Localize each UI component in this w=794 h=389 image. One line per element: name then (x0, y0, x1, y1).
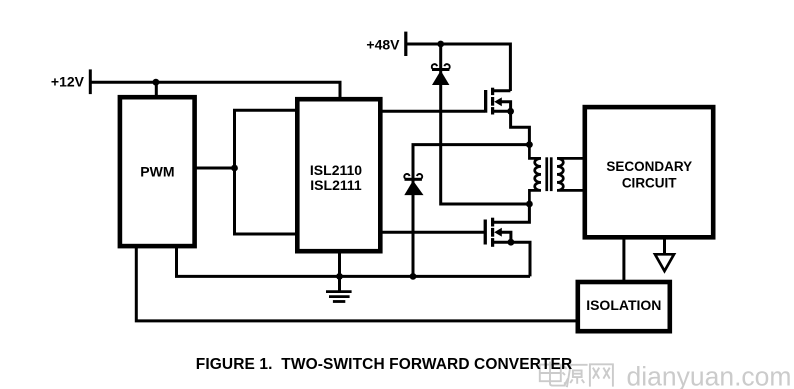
junction dot Q1 source (507, 108, 514, 115)
wire D1 branch (441, 44, 530, 204)
svg-text:FIGURE 1. TWO-SWITCH FORWARD: FIGURE 1. TWO-SWITCH FORWARD CONVERTER (196, 356, 572, 373)
IC U1 ISL2110/ISL2111 box (297, 99, 380, 251)
wire +12V rail (90, 82, 340, 99)
SECONDARY CIRCUIT box (585, 107, 713, 237)
mosfet Q2 (484, 218, 511, 247)
svg-text:ISL2111: ISL2111 (310, 177, 362, 193)
ground symbol (326, 292, 352, 302)
diode D1 schottky (432, 64, 450, 85)
junction dot +48V/D1 (437, 41, 444, 48)
mosfet Q1 (484, 88, 511, 115)
char yuan (564, 366, 567, 369)
junction dot primary top (526, 141, 533, 148)
svg-text:ISOLATION: ISOLATION (586, 297, 661, 313)
svg-text:PWM: PWM (140, 164, 174, 180)
char dian (549, 362, 551, 384)
power terminal +48V (404, 32, 407, 56)
PWM box (120, 97, 195, 246)
svg-text:+12V: +12V (51, 74, 85, 90)
wire isolation feedback (136, 247, 577, 321)
watermark dianyuan logo (540, 362, 613, 388)
wire bus vertical (233, 110, 236, 234)
junction dot ground rail (336, 273, 343, 280)
char wang (590, 364, 613, 386)
diode D2 schottky (404, 174, 423, 195)
wire PWM output (194, 167, 235, 170)
junction dot D2 rail (410, 273, 417, 280)
svg-text:CIRCUIT: CIRCUIT (622, 176, 677, 191)
wire Q2 source to bottom rail (511, 242, 530, 276)
svg-text:+48V: +48V (366, 37, 400, 53)
power terminal +12V (89, 69, 92, 94)
junction dot primary bottom (526, 201, 533, 208)
transformer T1 secondary (557, 158, 586, 190)
transformer T1 primary (529, 145, 541, 204)
wire Q1 source (511, 111, 530, 144)
junction dot +12V/PWM (153, 79, 160, 86)
junction dot Q2 source (508, 239, 515, 246)
svg-text:SECONDARY: SECONDARY (606, 159, 692, 174)
wire clamp node to D2 (413, 145, 529, 277)
wire Q2 drain (493, 204, 529, 222)
chassis ground (655, 238, 674, 271)
transformer T1 core (545, 157, 552, 191)
wire PWM VCC (155, 82, 158, 97)
wire Q1 gate (380, 110, 485, 113)
svg-text:ISL2110: ISL2110 (310, 162, 362, 178)
junction dot PWM output (231, 165, 238, 172)
wire secondary to isolation (622, 238, 625, 283)
ISOLATION box (578, 282, 670, 331)
wire +48V rail (406, 44, 511, 91)
wire bus top (233, 109, 298, 112)
wire ISL ground (338, 250, 341, 292)
wire Q2 gate (380, 231, 484, 234)
wire bottom rail (177, 247, 531, 276)
wire bus bottom (233, 233, 298, 236)
svg-text:dianyuan.com: dianyuan.com (627, 361, 792, 389)
